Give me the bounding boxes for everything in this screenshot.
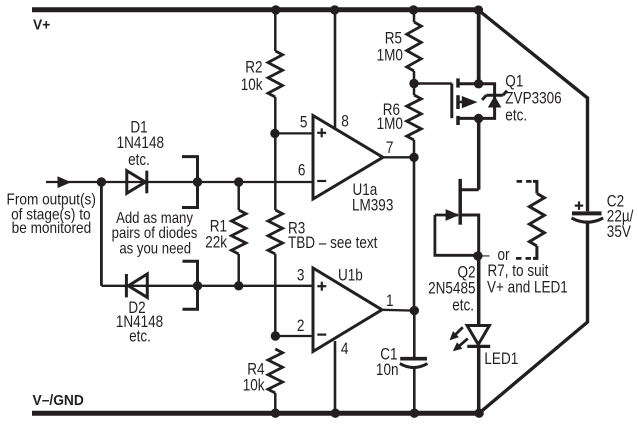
node pin8 on rail — [330, 5, 339, 14]
svg-text:10k: 10k — [241, 76, 263, 95]
wire Q1 zener loop — [479, 84, 495, 119]
svg-text:etc.: etc. — [505, 106, 527, 125]
node pin 2 — [271, 331, 280, 340]
svg-text:R5: R5 — [385, 29, 402, 48]
svg-text:1M0: 1M0 — [377, 115, 403, 134]
resistor R7 — [533, 181, 537, 193]
svg-text:ZVP3306: ZVP3306 — [505, 89, 561, 108]
op-amp U1a — [313, 116, 383, 200]
node U1a output — [409, 153, 418, 162]
svg-text:V–/GND: V–/GND — [33, 393, 84, 410]
wire C1 bottom — [413, 367, 416, 414]
svg-text:V+: V+ — [33, 17, 50, 34]
svg-text:be monitored: be monitored — [12, 220, 92, 237]
R7 bottom dashed lead — [515, 257, 532, 260]
node R5-R6 gate — [409, 79, 418, 88]
Q1 source stub — [458, 82, 479, 85]
capacitor C2 — [572, 211, 602, 215]
Q2 source lead — [460, 215, 479, 256]
transistor Q2 channel — [458, 179, 462, 225]
node U1b output — [410, 306, 419, 315]
wire diagonal V+ to C2 — [478, 10, 587, 211]
node R1 top — [234, 177, 243, 186]
node pin4 on rail — [331, 409, 340, 418]
LED1 diode — [467, 326, 489, 345]
svg-text:etc.: etc. — [129, 327, 151, 346]
svg-text:6: 6 — [298, 161, 306, 180]
wire V+ down to Q1 — [477, 10, 481, 84]
V+ power rail (top) — [32, 7, 481, 12]
svg-text:LM393: LM393 — [352, 196, 393, 215]
resistor R5 — [413, 10, 416, 22]
resistor R1 — [237, 182, 240, 210]
capacitor C1 — [400, 357, 427, 361]
pin 8 wire — [334, 12, 337, 129]
LED1 emission arrows — [454, 327, 462, 335]
diode D2 — [128, 274, 147, 297]
op-amp U1b — [313, 268, 382, 352]
wire Q1 to Q2 — [477, 118, 481, 189]
pin 4 wire — [334, 341, 337, 413]
wire pin 2 — [275, 335, 313, 337]
U1a minus — [317, 180, 326, 182]
wire Q2 to LED1 — [477, 256, 481, 326]
resistor R3 — [274, 133, 277, 210]
Q2 drain lead — [460, 188, 479, 191]
svg-text:2N5485: 2N5485 — [428, 279, 475, 298]
svg-text:35V: 35V — [607, 223, 631, 242]
diode D1 — [127, 171, 146, 194]
node C1 on rail — [410, 409, 419, 418]
U1a plus — [317, 132, 326, 134]
node R4 bottom on rail — [271, 409, 280, 418]
node R2 top on rail — [271, 5, 280, 14]
svg-text:1M0: 1M0 — [377, 46, 403, 65]
svg-text:1N4148: 1N4148 — [117, 134, 164, 153]
wire pin 3 line — [101, 285, 313, 287]
svg-text:22k: 22k — [205, 233, 227, 252]
svg-text:10n: 10n — [376, 361, 399, 380]
svg-text:etc.: etc. — [128, 151, 150, 170]
wire Q2 gate-source loop — [435, 215, 478, 255]
node D1 output — [193, 177, 202, 186]
svg-text:LED1: LED1 — [484, 350, 518, 369]
svg-text:5: 5 — [300, 113, 308, 132]
U1b plus — [317, 285, 326, 287]
wire diagonal C2 to GND — [479, 221, 587, 414]
Q1 zener diode — [488, 96, 502, 108]
node V+ corner — [474, 5, 483, 14]
wire U1b output — [382, 309, 414, 312]
node LED1 on rail — [474, 409, 483, 418]
svg-text:V+ and LED1: V+ and LED1 — [487, 278, 568, 297]
node R1 bottom — [234, 281, 243, 290]
wire pin 5 — [275, 132, 313, 134]
node R5 top on rail — [409, 5, 418, 14]
resistor R4 — [268, 349, 283, 393]
svg-text:as you need: as you need — [119, 240, 191, 257]
resistor R6 — [413, 84, 416, 96]
svg-text:1: 1 — [386, 291, 394, 310]
node input junction — [97, 177, 106, 186]
U1b minus — [317, 334, 326, 336]
svg-text:10k: 10k — [243, 376, 265, 395]
wire comparator bus — [413, 157, 416, 310]
node pin 5 — [270, 129, 279, 138]
V-/GND power rail (bottom) — [32, 411, 483, 416]
wire Q1 gate — [414, 82, 452, 85]
svg-text:R2: R2 — [245, 58, 262, 77]
wire U1a output — [383, 156, 414, 158]
svg-text:TBD – see text: TBD – see text — [288, 234, 378, 253]
Q2 gate arrow — [435, 214, 458, 217]
R7 top dashed lead — [517, 180, 533, 183]
svg-text:2: 2 — [297, 317, 305, 336]
resistor R2 — [274, 10, 277, 51]
Q1 body arrow — [458, 101, 464, 104]
svg-text:7: 7 — [386, 139, 394, 158]
transistor Q1 channel — [456, 78, 460, 87]
node Q1 drain — [474, 114, 483, 123]
node D2 output — [193, 281, 202, 290]
bracket upper (add diodes) — [182, 157, 198, 208]
svg-text:3: 3 — [297, 266, 305, 285]
node Q2 source — [473, 251, 482, 260]
wire LED1 to rail — [477, 347, 481, 413]
Q1 drain stub — [458, 117, 479, 120]
svg-text:8: 8 — [341, 112, 349, 131]
svg-text:U1b: U1b — [338, 266, 363, 285]
input wire to pin 6 — [46, 181, 313, 183]
node Q1 source — [474, 79, 483, 88]
svg-text:4: 4 — [341, 339, 349, 358]
wire C1 top — [413, 311, 416, 357]
wire input branch down — [100, 182, 103, 286]
bracket lower (add diodes) — [183, 261, 198, 309]
svg-text:Q1: Q1 — [505, 72, 523, 91]
input arrow — [58, 176, 72, 188]
capacitor C2 plus — [575, 205, 583, 207]
svg-text:etc.: etc. — [452, 296, 474, 315]
